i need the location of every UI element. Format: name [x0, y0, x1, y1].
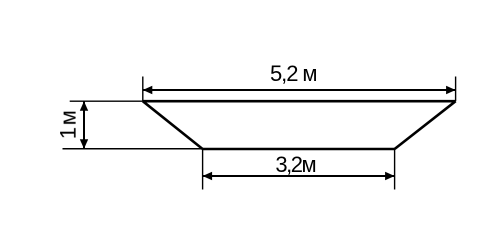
svg-text:5,2 м: 5,2 м [270, 61, 318, 86]
trapezoid top edge [143, 100, 456, 103]
trapezoid right slanted edge [395, 101, 456, 149]
top dimension label 5,2 м [270, 61, 318, 86]
svg-text:1м: 1м [56, 110, 81, 139]
left dimension label 1м (rotated) [56, 110, 81, 139]
top dimension right arrowhead [446, 86, 456, 94]
extension line bottom-left vertical [202, 149, 204, 190]
svg-text:3,2м: 3,2м [275, 152, 316, 177]
bottom dimension label 3,2м [275, 152, 316, 177]
extension line left upper horizontal [70, 100, 143, 102]
top dimension line [143, 89, 456, 91]
extension line left lower horizontal [63, 148, 203, 150]
extension line bottom-right vertical [394, 149, 396, 190]
bottom dimension left arrowhead [203, 172, 213, 180]
left dimension line [83, 101, 85, 149]
extension line top-left vertical [142, 77, 144, 102]
left dimension bottom arrowhead [80, 139, 88, 149]
bottom dimension line [203, 175, 395, 177]
bottom dimension right arrowhead [385, 172, 395, 180]
trapezoid left slanted edge [143, 101, 203, 149]
trapezoid bottom edge [203, 148, 395, 151]
top dimension left arrowhead [143, 86, 153, 94]
left dimension top arrowhead [80, 101, 88, 111]
extension line top-right vertical [455, 77, 457, 102]
